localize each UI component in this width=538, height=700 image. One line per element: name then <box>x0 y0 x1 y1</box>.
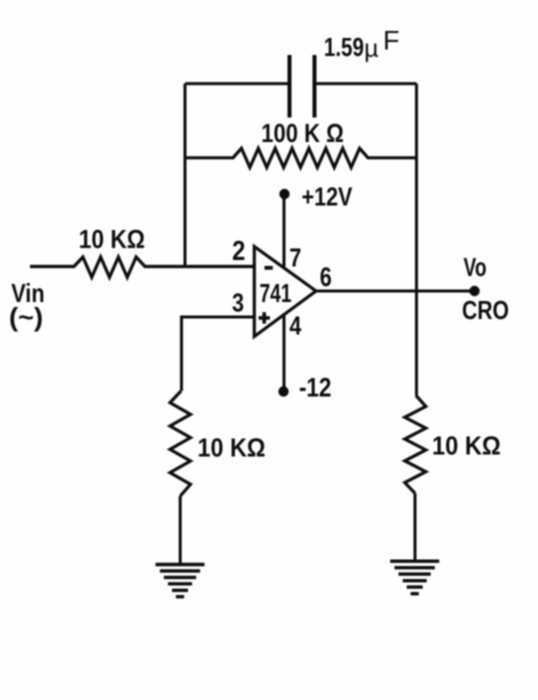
minus sign (inverting input marker) <box>265 266 273 270</box>
ground GND1 (left) <box>156 565 205 597</box>
wire: top feedback, right of capacitor <box>315 82 417 85</box>
svg-text:6: 6 <box>320 262 332 292</box>
svg-text:100 K Ω: 100 K Ω <box>261 118 344 148</box>
resistor R3 10K (non-inverting to ground) <box>170 391 191 496</box>
svg-text:CRO: CRO <box>462 295 509 325</box>
wire: +12V supply to pin 7 <box>283 197 286 268</box>
wire: left feedback rail <box>184 84 187 267</box>
svg-text:Vo: Vo <box>464 252 487 282</box>
svg-text:10 KΩ: 10 KΩ <box>198 432 266 462</box>
op-amp U1 741 triangle <box>254 247 316 337</box>
resistor R1 10K (input) with input wire <box>30 257 255 277</box>
svg-text:4: 4 <box>289 310 301 340</box>
svg-text:+12V: +12V <box>302 181 353 211</box>
svg-text:1.59: 1.59 <box>324 32 364 62</box>
resistor R4 10K (load at output) <box>405 396 426 494</box>
svg-text:10 KΩ: 10 KΩ <box>79 224 145 254</box>
wire: top feedback, left of capacitor <box>185 82 290 85</box>
ground GND2 (right) <box>390 561 439 594</box>
plus sign (non-inverting input marker) <box>259 312 270 323</box>
svg-text:2: 2 <box>232 235 245 266</box>
svg-text:-12: -12 <box>299 373 332 403</box>
svg-text:F: F <box>383 26 400 56</box>
node: -12 terminal dot <box>278 386 288 396</box>
wire: pin 4 to -12 supply <box>283 315 286 389</box>
capacitor C1 1.59uF plates <box>290 55 315 118</box>
svg-text:10 KΩ: 10 KΩ <box>432 430 501 460</box>
svg-text:741: 741 <box>260 280 292 308</box>
svg-text:7: 7 <box>289 243 301 273</box>
node: output Vo terminal dot <box>469 286 479 296</box>
node: +12V terminal dot <box>279 189 289 199</box>
resistor R2 100K (feedback) <box>185 148 417 167</box>
svg-text:3: 3 <box>232 288 244 318</box>
wire: R4 to ground <box>414 494 417 561</box>
wire: pin 3 to ground branch (corner) <box>182 317 255 391</box>
svg-text:µ: µ <box>364 35 378 63</box>
wire: right feedback/output rail <box>415 84 418 396</box>
wire: R3 to ground <box>179 496 182 564</box>
wire: output pin 6 <box>316 290 471 293</box>
svg-text:(~): (~) <box>9 302 43 332</box>
